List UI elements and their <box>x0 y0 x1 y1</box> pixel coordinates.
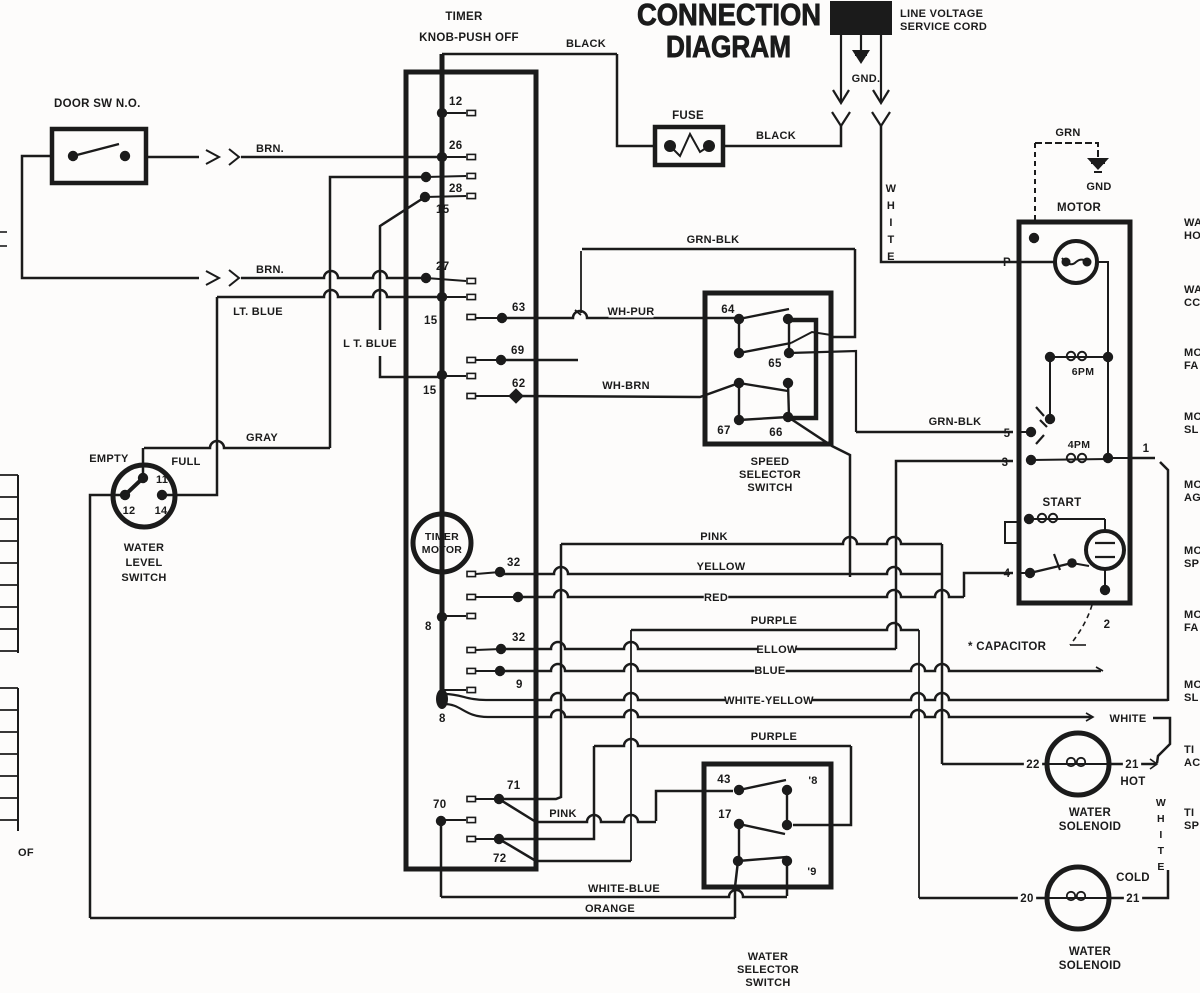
svg-text:E: E <box>887 251 895 263</box>
motor side tab <box>1005 522 1019 543</box>
svg-text:H: H <box>887 200 895 212</box>
timer terminal 62 <box>467 393 476 398</box>
svg-text:8: 8 <box>425 621 432 633</box>
speed selector pole 64-65 <box>738 319 740 353</box>
svg-text:32: 32 <box>507 557 520 569</box>
water level contacts <box>138 473 148 483</box>
label BLUE <box>754 665 785 677</box>
svg-text:64: 64 <box>721 304 735 316</box>
svg-text:LINE VOLTAGE: LINE VOLTAGE <box>900 8 983 20</box>
svg-text:15: 15 <box>436 204 450 216</box>
svg-text:PINK: PINK <box>549 808 576 820</box>
wire BLACK from timer to fuse <box>442 53 617 56</box>
svg-text:TI: TI <box>1184 744 1194 756</box>
svg-text:E: E <box>1157 861 1164 873</box>
pink riser right to hot solenoid <box>941 544 944 764</box>
svg-text:START: START <box>1043 497 1082 509</box>
speed selector grn-blk tap <box>791 332 831 343</box>
gnd arrow of cord <box>860 35 862 50</box>
svg-text:70: 70 <box>433 799 446 811</box>
svg-text:CC: CC <box>1184 297 1200 309</box>
cold water solenoid circle <box>1047 867 1109 929</box>
red riser to motor 4 <box>964 573 1013 597</box>
svg-text:SP: SP <box>1184 558 1199 570</box>
svg-text:PURPLE: PURPLE <box>751 731 797 743</box>
svg-text:PINK: PINK <box>700 531 727 543</box>
label WH-PUR <box>609 306 654 318</box>
svg-text:COLD: COLD <box>1116 872 1150 884</box>
svg-text:GND.: GND. <box>852 73 881 85</box>
svg-text:MO: MO <box>1184 679 1200 691</box>
svg-text:MOTOR: MOTOR <box>1057 202 1101 214</box>
wire door sw right lead <box>146 156 199 159</box>
terminal strip comb upper left <box>17 475 19 653</box>
timer motor circle <box>413 514 471 572</box>
svg-text:WH-PUR: WH-PUR <box>607 306 654 318</box>
wire YELLOW <box>500 567 942 574</box>
svg-text:LT. BLUE: LT. BLUE <box>233 306 283 318</box>
water selector pole 17 down <box>738 824 740 861</box>
motor terminal 4 contacts <box>1025 568 1035 578</box>
svg-text:22: 22 <box>1026 759 1039 771</box>
white-blue riser to 9 <box>786 861 789 896</box>
timer box <box>406 72 536 869</box>
wire WH-BRN 62 to 67 <box>516 383 739 397</box>
timer terminal 8a <box>437 612 447 622</box>
label 22 <box>1024 759 1042 771</box>
wire door sw left down to BRN row <box>22 156 199 278</box>
svg-text:'9: '9 <box>807 866 816 878</box>
wire GRN-BLK upper <box>582 248 855 251</box>
svg-text:'8: '8 <box>808 775 817 787</box>
svg-text:WATER: WATER <box>1069 946 1112 958</box>
svg-text:WHITE-BLUE: WHITE-BLUE <box>588 883 660 895</box>
svg-text:* CAPACITOR: * CAPACITOR <box>968 641 1047 653</box>
wire WHITE row <box>444 704 535 717</box>
svg-text:H: H <box>1157 813 1165 825</box>
svg-text:W: W <box>1156 797 1166 809</box>
motor 1 wire <box>1132 457 1155 460</box>
gray riser to timer 28 <box>330 177 426 448</box>
svg-text:GRAY: GRAY <box>246 432 278 444</box>
svg-text:63: 63 <box>512 302 525 314</box>
hot solenoid wire 22 <box>942 763 1047 766</box>
svg-text:SELECTOR: SELECTOR <box>739 469 801 481</box>
svg-text:FULL: FULL <box>171 456 200 468</box>
timer terminal 28 <box>421 172 431 182</box>
svg-text:P: P <box>1003 257 1011 269</box>
svg-text:BRN.: BRN. <box>256 143 284 155</box>
speed selector internal link 64row-66 <box>788 320 816 418</box>
svg-text:43: 43 <box>717 774 730 786</box>
label ELLOW <box>758 644 796 656</box>
cord left lead with connector <box>840 35 842 101</box>
svg-text:15: 15 <box>424 315 438 327</box>
water level 14 riser <box>162 297 217 495</box>
svg-text:9: 9 <box>516 679 523 691</box>
wire BRN to timer 26 <box>241 156 442 159</box>
svg-text:1: 1 <box>1143 443 1150 455</box>
svg-text:GRN-BLK: GRN-BLK <box>929 416 982 428</box>
label 21 cold <box>1124 893 1142 905</box>
svg-text:5: 5 <box>1004 428 1011 440</box>
svg-text:WH-BRN: WH-BRN <box>602 380 650 392</box>
svg-text:21: 21 <box>1125 759 1139 771</box>
svg-text:17: 17 <box>718 809 731 821</box>
wire water level 12 down to orange <box>90 495 125 918</box>
connector arrows BRN bottom <box>206 271 219 285</box>
purple lower riser right <box>793 746 851 825</box>
gnd symbol motor <box>1087 158 1109 170</box>
svg-text:6PM: 6PM <box>1072 366 1095 378</box>
timer terminal 15b <box>437 370 447 380</box>
svg-text:SPEED: SPEED <box>751 456 790 468</box>
svg-text:SL: SL <box>1184 424 1199 436</box>
timer bus vertical <box>440 54 445 703</box>
svg-text:HOT: HOT <box>1120 776 1145 788</box>
svg-text:SWITCH: SWITCH <box>121 572 166 584</box>
purple lower riser left <box>504 746 594 839</box>
timer terminal 15a <box>437 292 447 302</box>
svg-text:26: 26 <box>449 140 462 152</box>
svg-text:62: 62 <box>512 378 525 390</box>
cold solenoid wire 21 <box>1109 870 1168 898</box>
svg-text:T: T <box>887 234 894 246</box>
svg-text:EMPTY: EMPTY <box>89 453 129 465</box>
svg-text:YELLOW: YELLOW <box>697 561 746 573</box>
svg-text:32: 32 <box>512 632 525 644</box>
svg-text:BLACK: BLACK <box>756 130 796 142</box>
wire BRN to timer 27 <box>241 271 426 278</box>
svg-text:I: I <box>889 217 892 229</box>
svg-text:AC: AC <box>1184 757 1200 769</box>
svg-text:PURPLE: PURPLE <box>751 615 797 627</box>
timer terminal 27 <box>421 273 431 283</box>
speed selector terminal 67 <box>734 378 744 388</box>
motor capacitor circle <box>1086 531 1124 569</box>
motor 6PM coil <box>1045 352 1055 362</box>
motor P lead <box>1013 261 1055 264</box>
cord right lead with connector <box>880 35 882 101</box>
svg-text:72: 72 <box>493 853 506 865</box>
wire PINK upper <box>561 537 942 544</box>
speed selector terminal 65 <box>783 314 793 324</box>
motor right bus <box>1097 262 1108 458</box>
svg-text:FA: FA <box>1184 360 1199 372</box>
purple riser to cold solenoid <box>918 630 920 898</box>
wire WH-PUR 63 to 64 <box>502 311 739 318</box>
svg-text:4PM: 4PM <box>1068 439 1091 451</box>
grn-blk riser to speed selector <box>831 249 855 337</box>
service cord plug <box>830 1 892 35</box>
wire GRN-BLK lower <box>856 431 1013 434</box>
motor start switch tick <box>1054 554 1060 570</box>
motor dot 2 <box>1100 585 1110 595</box>
motor terminal 3 and 4PM coil <box>1026 455 1036 465</box>
svg-text:I: I <box>1159 829 1162 841</box>
connector arrows BRN top <box>206 150 219 164</box>
svg-text:LEVEL: LEVEL <box>126 557 163 569</box>
timer terminal 32a <box>495 567 505 577</box>
svg-text:BLUE: BLUE <box>754 665 785 677</box>
svg-text:GRN-BLK: GRN-BLK <box>687 234 740 246</box>
svg-text:MO: MO <box>1184 545 1200 557</box>
label WH-BRN <box>604 380 649 392</box>
timer terminal 9 <box>495 666 505 676</box>
wire GRAY from water level 11 <box>144 441 330 448</box>
svg-text:WHITE: WHITE <box>1110 713 1147 725</box>
svg-text:SWITCH: SWITCH <box>747 482 792 494</box>
svg-text:8: 8 <box>439 713 446 725</box>
svg-text:WA: WA <box>1184 284 1200 296</box>
svg-text:BRN.: BRN. <box>256 264 284 276</box>
svg-text:WAT: WAT <box>1184 217 1200 229</box>
water selector terminal 8 <box>782 785 792 795</box>
svg-text:SWITCH: SWITCH <box>745 977 790 989</box>
svg-text:SOLENOID: SOLENOID <box>1059 960 1121 972</box>
left margin tick marks <box>0 231 7 233</box>
water selector box <box>704 764 831 887</box>
svg-text:69: 69 <box>511 345 524 357</box>
svg-text:WATER: WATER <box>748 951 788 963</box>
label RED <box>704 592 728 604</box>
wire WHITE cord to motor <box>881 126 1013 262</box>
timer terminal 8b <box>436 689 448 709</box>
motor terminal 5 <box>1026 427 1036 437</box>
wire WHITE-BLUE <box>440 826 443 897</box>
timer terminal 63 <box>467 314 476 319</box>
timer terminal 71 <box>467 796 476 801</box>
svg-text:RED: RED <box>704 592 728 604</box>
wire RED <box>518 590 964 597</box>
wire YELLOW2 <box>501 642 896 649</box>
wire PINK lower <box>499 799 536 822</box>
svg-text:65: 65 <box>768 358 782 370</box>
svg-text:HO: HO <box>1184 230 1200 242</box>
svg-text:ELLOW: ELLOW <box>756 644 798 656</box>
timer terminal 15 upper <box>420 192 430 202</box>
svg-text:KNOB-PUSH OFF: KNOB-PUSH OFF <box>419 32 519 44</box>
timer terminal 72 <box>467 836 476 841</box>
hot water solenoid circle <box>1047 733 1109 795</box>
svg-text:28: 28 <box>449 183 463 195</box>
svg-text:MO: MO <box>1184 609 1200 621</box>
svg-text:71: 71 <box>507 780 521 792</box>
svg-text:4: 4 <box>1004 568 1011 580</box>
motor gnd dot <box>1029 233 1039 243</box>
water level switch circle <box>113 465 175 527</box>
label 20 <box>1018 893 1036 905</box>
label 21 hot <box>1123 759 1141 771</box>
speed selector terminal 64 <box>734 314 744 324</box>
speed selector terminal 66 <box>783 378 793 388</box>
timer terminal r2 <box>513 592 523 602</box>
riser 72 to purple upper <box>630 630 632 861</box>
svg-text:CONNECTION: CONNECTION <box>637 0 821 32</box>
svg-text:SL: SL <box>1184 692 1199 704</box>
svg-text:DOOR SW N.O.: DOOR SW N.O. <box>54 98 141 110</box>
svg-text:21: 21 <box>1126 893 1140 905</box>
svg-text:MO: MO <box>1184 347 1200 359</box>
motor start coil <box>1024 514 1034 524</box>
label ORANGE <box>588 903 633 915</box>
wire WHITE-YELLOW <box>444 694 535 700</box>
svg-text:12: 12 <box>449 96 462 108</box>
wire 66 blade to yellow row <box>788 417 850 577</box>
svg-text:27: 27 <box>436 261 449 273</box>
svg-text:GND: GND <box>1086 181 1111 193</box>
svg-text:OF: OF <box>18 847 34 859</box>
timer terminal 26 <box>437 152 447 162</box>
svg-text:SELECTOR: SELECTOR <box>737 964 799 976</box>
svg-text:DIAGRAM: DIAGRAM <box>666 29 791 64</box>
svg-text:SERVICE CORD: SERVICE CORD <box>900 21 987 33</box>
svg-text:66: 66 <box>769 427 782 439</box>
svg-text:MO: MO <box>1184 411 1200 423</box>
capacitor dashed pointer <box>1070 605 1092 645</box>
wire ORANGE <box>90 917 735 920</box>
motor box <box>1019 222 1130 603</box>
timer terminal 32b <box>496 644 506 654</box>
fuse box F1 <box>655 127 723 165</box>
hot solenoid wire 21 <box>1109 763 1157 766</box>
svg-text:20: 20 <box>1020 893 1033 905</box>
svg-text:GRN: GRN <box>1055 127 1080 139</box>
svg-text:MOT: MOT <box>1184 479 1200 491</box>
label WHITE-BLUE <box>588 883 660 895</box>
wire PURPLE lower <box>594 739 851 746</box>
door switch contacts <box>68 151 78 161</box>
speed selector 65 to grn-blk lower <box>789 351 856 432</box>
lt blue riser to timer 15 <box>380 197 425 330</box>
svg-text:AGI: AGI <box>1184 492 1200 504</box>
wire 69 stub <box>501 359 578 362</box>
speed selector box <box>705 293 831 444</box>
svg-text:SP: SP <box>1184 820 1199 832</box>
wire LT. BLUE from water level 14 <box>217 290 442 297</box>
wire motor 3 to yellow2 riser <box>896 461 1013 649</box>
svg-text:TIMER: TIMER <box>445 11 483 23</box>
water selector terminal 9 <box>782 856 792 866</box>
fuse element <box>664 140 676 152</box>
svg-text:2: 2 <box>1104 619 1111 631</box>
cold solenoid wire 20 <box>919 897 1047 900</box>
water selector terminal 43 <box>734 785 744 795</box>
label WHITE-YELLOW <box>726 695 812 707</box>
svg-text:WATER: WATER <box>1069 807 1112 819</box>
svg-text:TIMER: TIMER <box>425 531 459 543</box>
svg-text:SOLENOID: SOLENOID <box>1059 821 1121 833</box>
svg-text:67: 67 <box>717 425 730 437</box>
svg-text:ORANGE: ORANGE <box>585 903 635 915</box>
motor 6PM pole <box>1049 357 1051 419</box>
svg-text:14: 14 <box>155 505 168 517</box>
svg-text:FUSE: FUSE <box>672 110 704 122</box>
wire water level 11 up <box>142 448 145 478</box>
svg-text:L T. BLUE: L T. BLUE <box>343 338 397 350</box>
svg-text:3: 3 <box>1002 457 1009 469</box>
svg-text:W: W <box>886 183 897 195</box>
motor main winding <box>1055 241 1097 283</box>
svg-text:FA: FA <box>1184 622 1199 634</box>
svg-text:WHITE-YELLOW: WHITE-YELLOW <box>724 695 814 707</box>
pink riser left <box>502 544 561 799</box>
water selector terminal 17 <box>734 819 744 829</box>
svg-text:TI: TI <box>1184 807 1194 819</box>
grn dashed wire <box>1035 143 1098 158</box>
white wire to hot 21 <box>1153 718 1170 763</box>
terminal strip comb lower left <box>17 688 19 831</box>
svg-text:BLACK: BLACK <box>566 38 606 50</box>
svg-text:MOTOR: MOTOR <box>422 544 463 556</box>
pink lower riser to 43 <box>656 791 733 821</box>
wire fuse to cord left lead <box>723 126 841 146</box>
svg-text:11: 11 <box>156 474 168 486</box>
motor switch ticks <box>1036 407 1044 416</box>
svg-text:T: T <box>1158 845 1165 857</box>
wire 72 blade row <box>499 839 536 861</box>
door switch box S1 <box>52 129 146 183</box>
svg-text:12: 12 <box>123 505 136 517</box>
timer terminal 12 <box>437 108 447 118</box>
wire PURPLE upper <box>631 623 919 630</box>
timer terminal 69 <box>467 357 476 362</box>
wire BLUE <box>500 664 1101 671</box>
svg-text:WATER: WATER <box>124 542 164 554</box>
svg-text:15: 15 <box>423 385 437 397</box>
orange riser to water selector <box>735 861 738 918</box>
